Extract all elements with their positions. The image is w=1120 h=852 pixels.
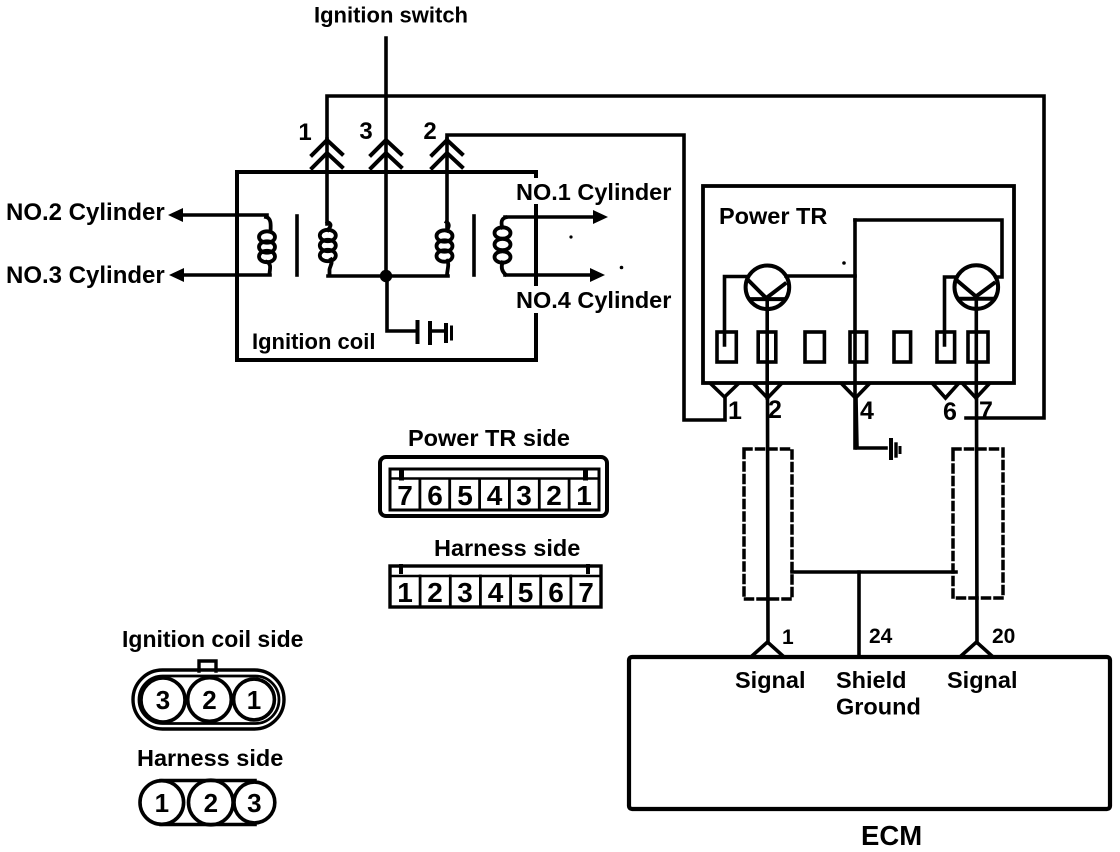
arrow NO.1 cylinder [505,210,608,224]
connector V at ECM pin 1 [752,642,783,656]
svg-text:2: 2 [546,480,562,511]
pin rect 4 [850,332,867,362]
svg-text:4: 4 [487,480,503,511]
svg-text:7: 7 [578,577,594,608]
wire chevron 2 vertical down to coil C [445,139,449,228]
arrow NO.2 cylinder [168,208,267,222]
connector ignition coil side tab [199,661,216,671]
core bar right [472,216,476,275]
shield dashed box right [953,449,1003,598]
svg-text:3: 3 [359,118,372,145]
connector Power TR side strip line [390,477,599,480]
connector ignition coil side inner stadium [139,676,279,724]
pin rect 6 [937,332,955,362]
svg-text:3: 3 [457,577,473,608]
Power TR box [703,186,1014,383]
svg-text:5: 5 [518,577,534,608]
svg-text:6: 6 [548,577,564,608]
wire Q1 emitter down through pin 2 [765,299,769,398]
connector chevron 1 [312,140,342,168]
svg-text:1: 1 [397,577,413,608]
pin rect 2 [758,332,776,362]
svg-text:Signal: Signal [947,667,1018,693]
wire inner top (collector rail) [855,220,1002,277]
shield dashed box left [744,449,792,599]
svg-text:7: 7 [979,397,993,425]
pin rect 1 [717,332,736,362]
inductor coil A (NO.2/NO.3 secondary) [259,217,275,275]
ignition coil box [237,172,536,360]
speck [842,261,846,265]
ECM box [629,657,1110,809]
svg-text:Ground: Ground [836,694,921,720]
arrow NO.4 cylinder [505,268,605,282]
labels ignition coil side 3 2 1 [156,685,261,715]
connector chevron 3 [371,140,401,168]
svg-text:NO.3 Cylinder: NO.3 Cylinder [6,262,165,289]
wire junction to capacitor [387,276,417,331]
transistor Q1 [746,266,790,310]
svg-text:NO.2 Cylinder: NO.2 Cylinder [6,199,165,226]
labels harness 3-pin 1 2 3 [155,788,262,818]
svg-text:Ignition coil: Ignition coil [252,329,375,354]
labels Harness side pins 1-7 [397,577,594,608]
svg-text:3: 3 [156,685,170,715]
wire top bus from chevron 1 to right side [327,96,1044,418]
svg-text:20: 20 [992,625,1015,648]
connector V below pin 2 [754,384,781,398]
junction node [380,270,392,282]
svg-text:Ignition coil side: Ignition coil side [122,626,303,652]
wire chevron 1 vertical down to coil B [325,139,329,224]
speck [569,235,572,238]
svg-text:4: 4 [860,397,874,425]
svg-text:2: 2 [423,118,436,145]
wire shield ground [792,570,956,574]
pin rect 7 [968,332,988,362]
svg-text:7: 7 [397,480,413,511]
arrow NO.3 cylinder [169,268,270,282]
wire Q1 collector to rail [786,274,855,278]
svg-text:Signal: Signal [735,667,806,693]
svg-text:Shield: Shield [836,667,907,693]
connector ignition coil side outer stadium [133,670,284,729]
wire ignition switch lead (node 3 vertical) [384,38,388,276]
wire chevron 2 branch to Power TR pin 1 [447,135,725,420]
svg-text:Harness side: Harness side [434,535,580,561]
connector Power TR side cell dividers [420,480,569,510]
svg-text:2: 2 [204,788,218,818]
wire coil B/C bottoms to junction [328,274,448,278]
inductor coil B (primary left) [320,222,336,275]
svg-text:ECM: ECM [861,820,922,851]
transistor Q2 [955,265,999,309]
svg-text:Harness side: Harness side [137,745,283,771]
svg-text:1: 1 [728,397,742,425]
core bar left [295,216,299,275]
capacitor and ground symbol [418,322,452,343]
labels Power TR side pins 7-1 [397,480,592,511]
svg-text:1: 1 [782,626,794,649]
svg-text:1: 1 [247,685,261,715]
svg-text:NO.1 Cylinder: NO.1 Cylinder [516,179,671,205]
connector harness 3-pin circles [140,781,184,825]
label NO.1 Cylinder (white bg) [513,178,673,205]
svg-text:3: 3 [516,480,532,511]
inductor coil D (NO.1/NO.4 secondary) [495,218,511,275]
wire pin 7 to ECM pin 20 (signal) [975,398,979,643]
connector V at ECM pin 20 [961,642,992,656]
svg-text:Ignition switch: Ignition switch [314,3,468,28]
wire collector rail vertical down to ground elbow [853,220,857,448]
svg-text:2: 2 [202,685,216,715]
connector Harness side strip line [390,575,601,578]
connector ignition coil side pin circles [141,678,185,722]
connector Power TR side notches [399,470,404,478]
svg-text:4: 4 [488,577,504,608]
pin rect 3 [805,332,824,362]
ground symbol at pin 4 [891,440,900,458]
connector harness 3-pin top line [161,779,255,783]
svg-text:6: 6 [943,398,957,426]
svg-text:24: 24 [869,625,893,648]
label NO.4 Cylinder (white bg) [513,286,673,313]
connector V below pin 6 [933,384,958,398]
connector V below pin 7 [963,384,989,398]
pin rect 5 [894,332,911,362]
connector chevron 2 [432,140,462,168]
wire Q2 base [945,277,957,345]
svg-text:6: 6 [427,480,443,511]
svg-text:2: 2 [427,577,443,608]
svg-text:NO.4 Cylinder: NO.4 Cylinder [516,287,671,313]
svg-text:1: 1 [576,480,592,511]
wire pin 2 to ECM pin 1 (signal) [766,398,770,643]
svg-text:1: 1 [298,119,311,146]
connector V below pin 4 [842,384,869,398]
wire Q1 base [725,277,748,346]
connector Power TR side inner [390,469,599,510]
svg-text:1: 1 [155,788,169,818]
svg-text:3: 3 [247,788,261,818]
wire shield ground drop to ECM 24 [857,572,861,656]
inductor coil C (primary right) [437,222,453,275]
connector Harness side box [390,566,601,607]
svg-text:Power TR side: Power TR side [408,425,570,451]
connector Harness side cell dividers [420,576,571,607]
wire Q2 emitter down through pin 7 [974,299,978,398]
connector V below pin 1 [711,384,738,397]
connector harness 3-pin bottom line [161,823,255,827]
connector Power TR side outer [380,457,607,516]
connector Harness side notches [399,566,403,572]
svg-text:5: 5 [457,480,473,511]
speck [620,266,624,270]
wire pin 4 to ground [856,398,886,448]
svg-text:2: 2 [768,396,782,424]
svg-text:Power TR: Power TR [719,203,827,229]
